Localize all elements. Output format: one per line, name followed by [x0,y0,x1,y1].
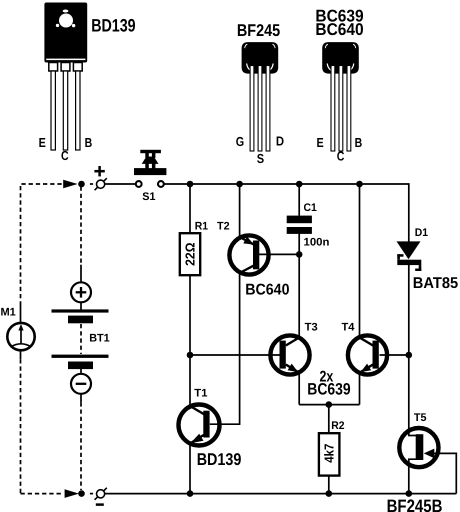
svg-text:R2: R2 [331,420,344,432]
BF245 pin S leg [258,66,262,152]
wire: T1 emitter to bottom rail [189,443,191,494]
wire: dashed M1 bottom to bottom rail and to bottom arrow [20,351,22,360]
transistor T1 (BD139) [179,405,220,446]
svg-text:E: E [317,135,324,150]
node: T5 source bottom rail [406,490,413,497]
node A: R1/T3 base junction [187,352,194,359]
wire: node A to T3 base [190,354,281,356]
svg-text:M1: M1 [1,307,16,319]
BC639 pin B leg [347,66,351,152]
wire: T3/T4 emitter join [299,404,359,406]
wire: T2 emitter to top rail [239,184,241,239]
terminal bottom connector [95,488,107,500]
resistor R1 [180,233,200,275]
svg-text:B: B [355,135,363,150]
wire: T4 emitter down [359,372,361,405]
svg-text:S: S [257,151,265,166]
transistor T3 (BC639) [270,335,309,374]
wire: top rail left of S1 [90,183,93,185]
wire: dashed battery bottom feed [80,394,82,403]
polarity arrow top [63,180,77,189]
meter M1 [7,323,34,350]
svg-text:R1: R1 [195,221,208,233]
wire: C1 top [298,184,300,216]
node: T4 base right rail [406,352,413,359]
svg-text:T5: T5 [414,412,427,424]
node: T3/T4 emitters to R2 [326,401,333,408]
svg-text:T3: T3 [305,322,318,334]
resistor R2 [319,433,340,475]
svg-text:C1: C1 [304,202,317,214]
wire: dashed feed from M1 column to top arrow [21,184,64,306]
svg-text:BC640: BC640 [315,20,363,39]
svg-text:4k7: 4k7 [322,444,337,463]
svg-text:BD139: BD139 [91,16,135,36]
battery BT1 cell 2 [52,355,109,370]
BD139 pin E leg [49,63,58,72]
node: T4 top rail [356,181,363,188]
wire: C1 bottom through node to T3 collector [298,234,300,339]
node: T1 emitter bottom rail [187,490,194,497]
battery BT1 cell 1 [52,309,109,323]
terminal + (plus sign) [94,166,104,176]
svg-text:22Ω: 22Ω [183,243,198,266]
terminal - (minus sign) [96,503,104,506]
wire: T2 base to C1 node [259,253,299,255]
svg-text:S1: S1 [142,191,155,203]
BC639 pin E leg [331,66,335,152]
transistor T5 (BF245B JFET) [399,428,438,467]
wire: R2 top [328,405,330,434]
svg-text:BC640: BC640 [245,282,290,299]
svg-text:E: E [39,135,46,150]
wire: top rail S1 to right corner, down to D1 [164,184,409,243]
node: R1 top rail [187,181,194,188]
svg-text:C: C [337,149,345,164]
BD139 package body [44,3,87,63]
battery BT1 minus circle [71,369,91,394]
svg-text:100n: 100n [304,236,330,248]
wire: R2 bottom [328,475,330,493]
transistor T2 (BC640) [229,235,268,274]
BD139 pin B leg [73,63,82,72]
svg-text:T2: T2 [217,221,230,233]
BF245 package body [242,42,279,74]
wire: dashed battery top feed [80,187,82,266]
node: top battery junction [78,181,85,188]
BC639 pin C leg [339,66,343,152]
wire: R1 top [189,184,191,234]
wire: T5 gate loop [430,453,456,493]
node: C1 top rail [296,181,303,188]
terminal top connector [95,178,107,190]
wire: dashed battery middle [80,324,82,354]
svg-text:D: D [276,133,284,148]
svg-text:T4: T4 [342,321,356,333]
svg-text:D1: D1 [415,227,428,239]
wire: R1 bottom to node A [189,275,191,355]
wire: T4 base to right rail [380,354,409,356]
node: bottom battery junction [78,490,85,497]
BC639/BC640 package body [322,42,359,74]
BF245 pin D leg [266,66,270,152]
diode D1 (BAT85) [397,241,422,271]
wire: dashed bottom-left horizontal [21,493,64,495]
svg-text:BT1: BT1 [89,332,110,344]
wire: T1 base to T2 collector [210,272,240,424]
svg-text:G: G [236,134,244,149]
svg-text:C: C [61,148,69,163]
BF245 pin G leg [250,66,254,152]
capacitor C1 [287,216,312,234]
node: R2 bottom rail [326,490,333,497]
svg-text:BF245: BF245 [237,21,280,40]
wire: T3 emitter down [298,372,300,405]
polarity arrow bottom [65,489,79,498]
wire: node A to T1 collector [189,355,191,407]
svg-text:BF245B: BF245B [387,496,443,512]
wire: T4 collector to top rail [359,184,361,339]
battery BT1 plus circle [71,282,91,309]
svg-text:BD139: BD139 [197,450,242,469]
wire: D1 cathode down to T5 drain [408,265,410,436]
wire: T5 source horizontal and down [409,459,417,493]
svg-text:BC639: BC639 [307,380,350,398]
svg-text:T1: T1 [194,387,207,399]
transistor T4 (BC639) [348,335,387,374]
wire: bottom rail [90,493,93,495]
node: C1/T2 base junction [296,251,303,258]
node: T2 top rail [236,181,243,188]
BD139 pin C leg [61,63,70,72]
svg-text:B: B [85,135,93,150]
switch S1 [134,150,166,187]
wire: T5 drain horizontal [408,435,416,437]
svg-text:BAT85: BAT85 [413,275,459,292]
